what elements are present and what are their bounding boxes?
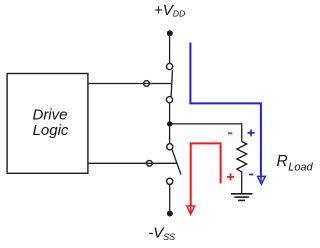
svg-text:Drive: Drive: [32, 107, 67, 124]
svg-text:Logic: Logic: [33, 122, 69, 139]
